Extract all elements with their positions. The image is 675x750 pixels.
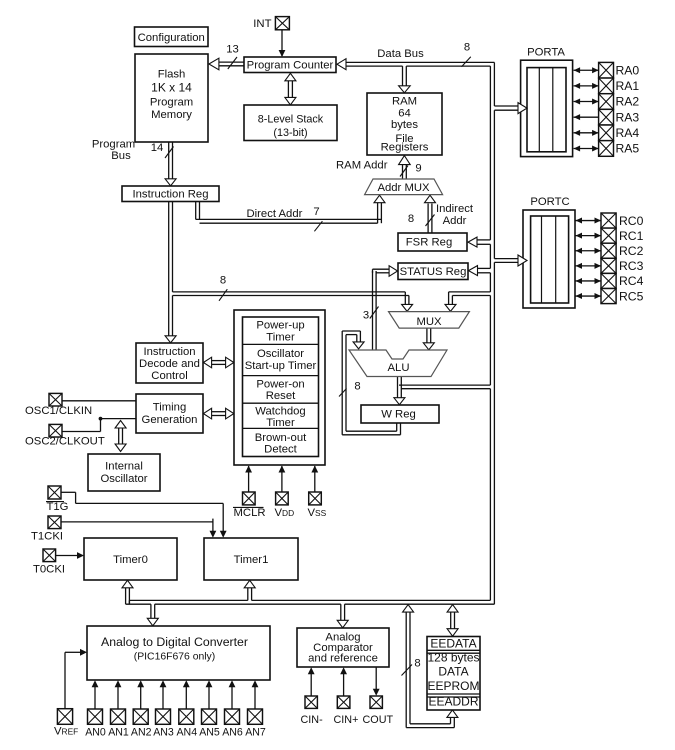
svg-text:T0CKI: T0CKI — [33, 563, 65, 575]
svg-text:Instruction: Instruction — [143, 346, 195, 358]
svg-text:Control: Control — [151, 370, 187, 382]
pin COUT — [363, 696, 394, 726]
svg-text:AN2: AN2 — [131, 726, 152, 738]
svg-text:CIN+: CIN+ — [334, 714, 359, 726]
box Internal Oscillator — [88, 454, 160, 491]
box Timing Generation — [136, 394, 203, 433]
wire OSC1/CLKIN to Timing Generation — [62, 400, 136, 402]
svg-text:VDD: VDD — [275, 507, 295, 519]
svg-text:Start-up Timer: Start-up Timer — [245, 360, 317, 372]
label Indirect Addr — [436, 203, 474, 227]
label Direct Addr — [247, 208, 303, 220]
svg-text:and reference: and reference — [308, 653, 378, 665]
svg-text:MCLR: MCLR — [234, 507, 266, 519]
svg-text:RA0: RA0 — [616, 63, 640, 77]
wire T1CKI to Timer1 — [61, 519, 216, 538]
svg-text:Configuration: Configuration — [138, 32, 205, 44]
wire Timing Generation to Internal Oscillator bidirectional — [115, 421, 126, 452]
pin VREF — [54, 709, 78, 738]
svg-text:Timer0: Timer0 — [113, 554, 148, 566]
svg-text:RC1: RC1 — [619, 229, 644, 243]
wire AN6 to A/D converter — [229, 680, 236, 709]
label Program Bus — [92, 139, 135, 163]
wire OSC2/CLKOUT to Timing Generation — [62, 417, 136, 432]
svg-text:(13-bit): (13-bit) — [273, 127, 307, 139]
svg-text:RC0: RC0 — [619, 214, 644, 228]
svg-text:Bus: Bus — [111, 150, 131, 162]
svg-text:EEDATA: EEDATA — [430, 637, 476, 651]
pin AN7 — [245, 709, 266, 738]
box 8-Level Stack (13-bit) — [244, 105, 337, 141]
box RAM 64 bytes File Registers — [367, 93, 442, 155]
wire Program Counter to 8-Level Stack bidirectional — [285, 73, 296, 105]
svg-text:AN0: AN0 — [85, 726, 106, 738]
wire VSS to reset block — [311, 466, 318, 493]
svg-text:Program: Program — [92, 139, 135, 151]
pin RA5 — [599, 141, 640, 157]
svg-text:Timer1: Timer1 — [234, 554, 269, 566]
box Analog to Digital Converter (PIC16F676 only) — [87, 626, 270, 680]
wire VDD to reset block — [279, 466, 286, 493]
svg-text:AN1: AN1 — [108, 726, 129, 738]
svg-text:AN5: AN5 — [199, 726, 220, 738]
wire program bus Flash to Instruction Reg with 14 slash — [151, 142, 176, 186]
svg-text:CIN-: CIN- — [301, 714, 324, 726]
svg-text:Decode and: Decode and — [139, 358, 200, 370]
wire bottom horizontal data bus — [126, 600, 495, 604]
svg-text:Memory: Memory — [151, 109, 192, 121]
bus width 8 slash on data bus top right — [462, 42, 471, 67]
svg-text:Addr: Addr — [443, 215, 467, 227]
box Program Counter — [244, 57, 336, 73]
svg-text:Generation: Generation — [142, 414, 198, 426]
wire AN7 to A/D converter — [252, 680, 259, 709]
wire T0CKI to Timer0 — [56, 552, 85, 559]
svg-text:64: 64 — [398, 108, 411, 120]
pin CIN+ — [334, 696, 359, 726]
wire COUT from Analog Comparator — [373, 667, 380, 696]
svg-text:Flash: Flash — [158, 69, 186, 81]
wire data bus to FSR Reg — [468, 237, 490, 247]
svg-text:EEADDR: EEADDR — [428, 695, 478, 709]
box Instruction Decode and Control — [136, 343, 203, 383]
svg-text:RAM: RAM — [392, 96, 417, 108]
wire data bus from Program Counter to right-side bus — [337, 59, 494, 70]
svg-text:Direct Addr: Direct Addr — [247, 208, 303, 220]
svg-text:Brown-out: Brown-out — [255, 432, 307, 444]
wire bus to EEDATA bidirectional — [447, 605, 458, 637]
svg-text:8: 8 — [220, 275, 226, 287]
svg-text:RA5: RA5 — [616, 142, 640, 156]
svg-text:INT: INT — [253, 18, 271, 30]
svg-text:DATA: DATA — [438, 665, 468, 679]
pin RA1 — [599, 78, 640, 94]
box Analog Comparator and reference — [297, 628, 389, 667]
pin RC2 — [601, 243, 644, 258]
svg-text:AN4: AN4 — [176, 726, 197, 738]
svg-text:Instruction Reg: Instruction Reg — [133, 189, 209, 201]
wires PORTA to pins RA0-RA5 — [574, 67, 599, 73]
wire data bus to PORTA — [494, 103, 527, 114]
svg-text:Power-on: Power-on — [256, 379, 304, 391]
wire CIN+ to Analog Comparator — [340, 667, 347, 696]
svg-text:RC2: RC2 — [619, 244, 644, 258]
svg-text:Addr MUX: Addr MUX — [377, 182, 430, 194]
svg-text:EEPROM: EEPROM — [427, 679, 479, 693]
svg-text:Timer: Timer — [266, 417, 295, 429]
box Timer1 — [204, 538, 298, 580]
box Configuration — [135, 27, 209, 47]
svg-text:Indirect: Indirect — [436, 203, 474, 215]
svg-text:128 bytes: 128 bytes — [427, 651, 479, 665]
pin RA0 — [599, 62, 640, 78]
pin INT — [253, 17, 289, 30]
svg-text:STATUS Reg: STATUS Reg — [400, 266, 467, 278]
svg-text:14: 14 — [151, 142, 164, 154]
wire AN0 to A/D converter — [92, 680, 99, 709]
wires PORTC to pins RC0-RC5 — [576, 218, 602, 224]
svg-text:Oscillator: Oscillator — [100, 473, 147, 485]
box FSR Reg — [398, 233, 467, 251]
pin VDD — [275, 492, 295, 519]
svg-text:AN6: AN6 — [222, 726, 243, 738]
pin AN1 — [108, 709, 129, 738]
svg-text:Watchdog: Watchdog — [255, 406, 305, 418]
svg-text:Program: Program — [150, 97, 193, 109]
svg-text:7: 7 — [313, 206, 319, 218]
pin T1CKI — [31, 516, 63, 542]
pin RA4 — [599, 125, 640, 141]
svg-text:W Reg: W Reg — [381, 409, 416, 421]
svg-text:8: 8 — [408, 213, 414, 225]
pin RA2 — [599, 94, 640, 110]
box PORTC — [523, 196, 575, 308]
pin AN6 — [222, 709, 243, 738]
pin RA3 — [599, 109, 640, 125]
svg-text:1K x 14: 1K x 14 — [151, 81, 192, 95]
svg-text:T1CKI: T1CKI — [31, 530, 63, 542]
label RAM Addr — [336, 160, 388, 172]
wire Instruction Reg to Instruction Decode — [165, 201, 176, 342]
wire AN1 to A/D converter — [115, 680, 122, 709]
svg-text:bytes: bytes — [391, 119, 418, 131]
svg-text:Oscillator: Oscillator — [257, 348, 304, 360]
svg-text:Timer: Timer — [266, 332, 295, 344]
wire MCLR to reset block — [245, 466, 252, 493]
svg-text:RC3: RC3 — [619, 259, 644, 273]
wire AN4 to A/D converter — [183, 680, 190, 709]
wire data bus to PORTC — [494, 255, 527, 266]
pin AN4 — [176, 709, 197, 738]
svg-text:AN3: AN3 — [153, 726, 174, 738]
wire CIN- to Analog Comparator — [308, 667, 315, 696]
pin CIN- — [301, 696, 324, 726]
wire direct addr from Instruction Reg to Addr MUX — [196, 195, 385, 231]
wire 8-bit literal bus from instruction path to MUX — [173, 275, 413, 312]
alu ALU — [349, 350, 447, 377]
box STATUS Reg — [398, 263, 468, 280]
box PORTA — [521, 47, 573, 157]
wire ALU flags to STATUS Reg with 3 slash — [363, 266, 398, 350]
pin AN0 — [85, 709, 106, 738]
svg-text:RA2: RA2 — [616, 95, 640, 109]
box reset and timer block outer — [234, 310, 325, 465]
label Data Bus — [377, 48, 424, 60]
svg-text:AN7: AN7 — [245, 726, 266, 738]
pin RC3 — [601, 258, 644, 273]
wire Instruction Decode to reset block bidirectional — [203, 357, 233, 368]
svg-text:Timing: Timing — [153, 402, 186, 414]
svg-text:VSS: VSS — [308, 507, 327, 519]
svg-text:FSR Reg: FSR Reg — [406, 237, 452, 249]
box EEDATA 128 bytes DATA EEPROM EEADDR — [427, 637, 480, 711]
wire INT to Program Counter — [279, 30, 286, 57]
svg-text:Data Bus: Data Bus — [377, 48, 424, 60]
wire right vertical data bus — [490, 62, 494, 604]
wire ALU result to W Reg and data bus — [339, 377, 490, 405]
wire data bus to RAM — [399, 66, 411, 93]
svg-text:8: 8 — [354, 381, 360, 393]
svg-text:ALU: ALU — [388, 362, 410, 374]
svg-text:PORTA: PORTA — [527, 47, 565, 59]
svg-text:8: 8 — [464, 42, 470, 54]
svg-text:Power-up: Power-up — [256, 320, 304, 332]
wire Addr MUX to RAM with 9 slash — [399, 156, 422, 179]
pin OSC2/CLKOUT — [25, 424, 105, 447]
svg-text:Internal: Internal — [105, 461, 143, 473]
wire bus to Timer1 — [244, 580, 255, 600]
svg-text:Registers: Registers — [381, 142, 429, 154]
pin AN5 — [199, 709, 220, 738]
svg-text:PORTC: PORTC — [530, 196, 569, 208]
wire data bus to STATUS Reg right side — [469, 266, 491, 276]
svg-text:RA4: RA4 — [616, 126, 640, 140]
wire bus to Timer0 — [122, 580, 133, 604]
wire T1G to Timer1 — [61, 492, 227, 537]
svg-text:RAM Addr: RAM Addr — [336, 160, 388, 172]
svg-text:13: 13 — [226, 44, 239, 56]
pin RC0 — [601, 213, 644, 228]
pin RC1 — [601, 228, 644, 243]
svg-text:Program Counter: Program Counter — [247, 60, 334, 72]
wire VREF to A/D converter — [65, 649, 87, 709]
pin AN2 — [131, 709, 152, 738]
box Flash 1K x 14 Program Memory — [135, 54, 208, 142]
pin RC5 — [601, 289, 644, 304]
wire MUX output to ALU — [423, 328, 434, 350]
svg-text:OSC1/CLKIN: OSC1/CLKIN — [25, 405, 92, 417]
svg-text:COUT: COUT — [363, 714, 394, 726]
box Power-up Timer / Oscillator Start-up Timer / Power-on Reset / Watchdog Timer / Brown-out Detect — [243, 317, 319, 457]
svg-text:OSC2/CLKOUT: OSC2/CLKOUT — [25, 435, 105, 447]
wire AN3 to A/D converter — [160, 680, 167, 709]
svg-text:8: 8 — [414, 658, 420, 670]
pin T0CKI — [33, 549, 65, 575]
box Instruction Reg — [122, 186, 219, 202]
svg-text:T1G: T1G — [47, 501, 69, 513]
mux Addr MUX — [365, 179, 443, 195]
wire 13-bit bus Program Counter to Flash — [209, 44, 244, 70]
wire bus to Analog Comparator — [337, 604, 348, 628]
wire bus to A/D converter — [147, 604, 158, 626]
svg-text:RA1: RA1 — [616, 79, 640, 93]
pin AN3 — [153, 709, 174, 738]
svg-text:RA3: RA3 — [616, 110, 640, 124]
box W Reg — [361, 405, 439, 423]
svg-text:MUX: MUX — [416, 316, 442, 328]
pin VSS — [308, 492, 327, 519]
wire AN2 to A/D converter — [137, 680, 144, 709]
wire W Reg feedback to ALU — [342, 331, 400, 435]
svg-text:VREF: VREF — [54, 726, 78, 738]
svg-text:9: 9 — [415, 163, 421, 175]
svg-text:3: 3 — [363, 310, 369, 322]
wire AN5 to A/D converter — [206, 680, 213, 709]
wire EEADDR address path with 8 slash — [402, 605, 458, 728]
pin T1G — [46, 486, 68, 513]
pin RC4 — [601, 273, 644, 288]
svg-text:RC4: RC4 — [619, 274, 644, 288]
pin OSC1/CLKIN — [25, 393, 92, 416]
svg-text:RC5: RC5 — [619, 289, 644, 303]
svg-text:(PIC16F676 only): (PIC16F676 only) — [134, 652, 215, 663]
mux MUX — [389, 312, 470, 329]
wire data bus to MUX right input — [445, 292, 490, 312]
pin MCLR — [233, 492, 266, 519]
wire Timing Generation to reset block bidirectional — [203, 408, 233, 419]
svg-text:8-Level Stack: 8-Level Stack — [258, 114, 324, 126]
svg-text:Analog to Digital Converter: Analog to Digital Converter — [101, 635, 248, 649]
svg-text:Detect: Detect — [264, 444, 298, 456]
svg-text:Reset: Reset — [266, 390, 296, 402]
box Timer0 — [84, 538, 177, 580]
wire indirect addr FSR Reg to Addr MUX with 8 slash — [408, 195, 436, 233]
